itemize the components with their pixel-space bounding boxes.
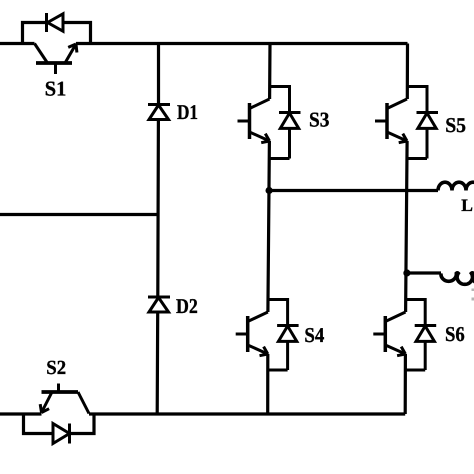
label D1 xyxy=(177,100,198,124)
node A junction dot xyxy=(266,187,273,194)
label S4 xyxy=(304,323,324,347)
cut-off label fragment at right edge xyxy=(472,289,474,301)
transistor S5 xyxy=(375,99,407,143)
svg-text:S3: S3 xyxy=(309,107,329,131)
wire output A xyxy=(269,189,438,192)
inductor (output B, loops below) xyxy=(441,273,474,285)
svg-text:D1: D1 xyxy=(177,100,198,124)
svg-text:S1: S1 xyxy=(45,77,67,101)
label S6 xyxy=(445,322,465,346)
wire bottom-left lead to S2 xyxy=(0,412,42,415)
svg-text:S6: S6 xyxy=(445,322,465,346)
antiparallel diode of S3 xyxy=(270,87,301,159)
node B junction dot xyxy=(403,269,410,276)
svg-text:L: L xyxy=(461,195,473,215)
transistor S2 xyxy=(40,384,89,414)
wire S5/S6 leg xyxy=(405,44,407,415)
label S5 xyxy=(445,113,466,137)
wire S2 antiparallel loop xyxy=(24,414,95,434)
label D2 xyxy=(176,294,198,318)
antiparallel diode of S5 xyxy=(407,87,438,159)
diode D1 xyxy=(148,105,170,120)
svg-text:S4: S4 xyxy=(304,323,324,347)
diode of S1 (points left) xyxy=(47,13,64,32)
transistor S3 xyxy=(238,99,270,143)
wire D1/D2 branch xyxy=(157,44,158,415)
label S2 xyxy=(46,357,66,379)
svg-text:S2: S2 xyxy=(46,357,66,379)
diode of S2 (points right) xyxy=(53,424,70,444)
antiparallel diode of S4 xyxy=(268,300,299,371)
transistor S1 xyxy=(35,44,77,75)
inductor L (output A) xyxy=(438,182,474,190)
wire top-left lead to S1 xyxy=(0,42,35,45)
antiparallel diode of S6 xyxy=(405,300,436,371)
wire S1 antiparallel loop xyxy=(23,23,91,44)
transistor S4 xyxy=(236,312,268,356)
wire left mid lead xyxy=(0,213,159,216)
wire S3/S4 leg xyxy=(268,44,270,415)
label S3 xyxy=(309,107,329,131)
wire top bus xyxy=(76,42,408,45)
transistor S6 xyxy=(373,312,405,356)
label S1 xyxy=(45,77,67,101)
wire output B xyxy=(406,271,441,274)
diode D2 xyxy=(148,297,170,312)
wire bottom bus xyxy=(89,412,405,415)
svg-text:D2: D2 xyxy=(176,294,198,318)
label L xyxy=(461,195,473,215)
svg-text:S5: S5 xyxy=(445,113,466,137)
